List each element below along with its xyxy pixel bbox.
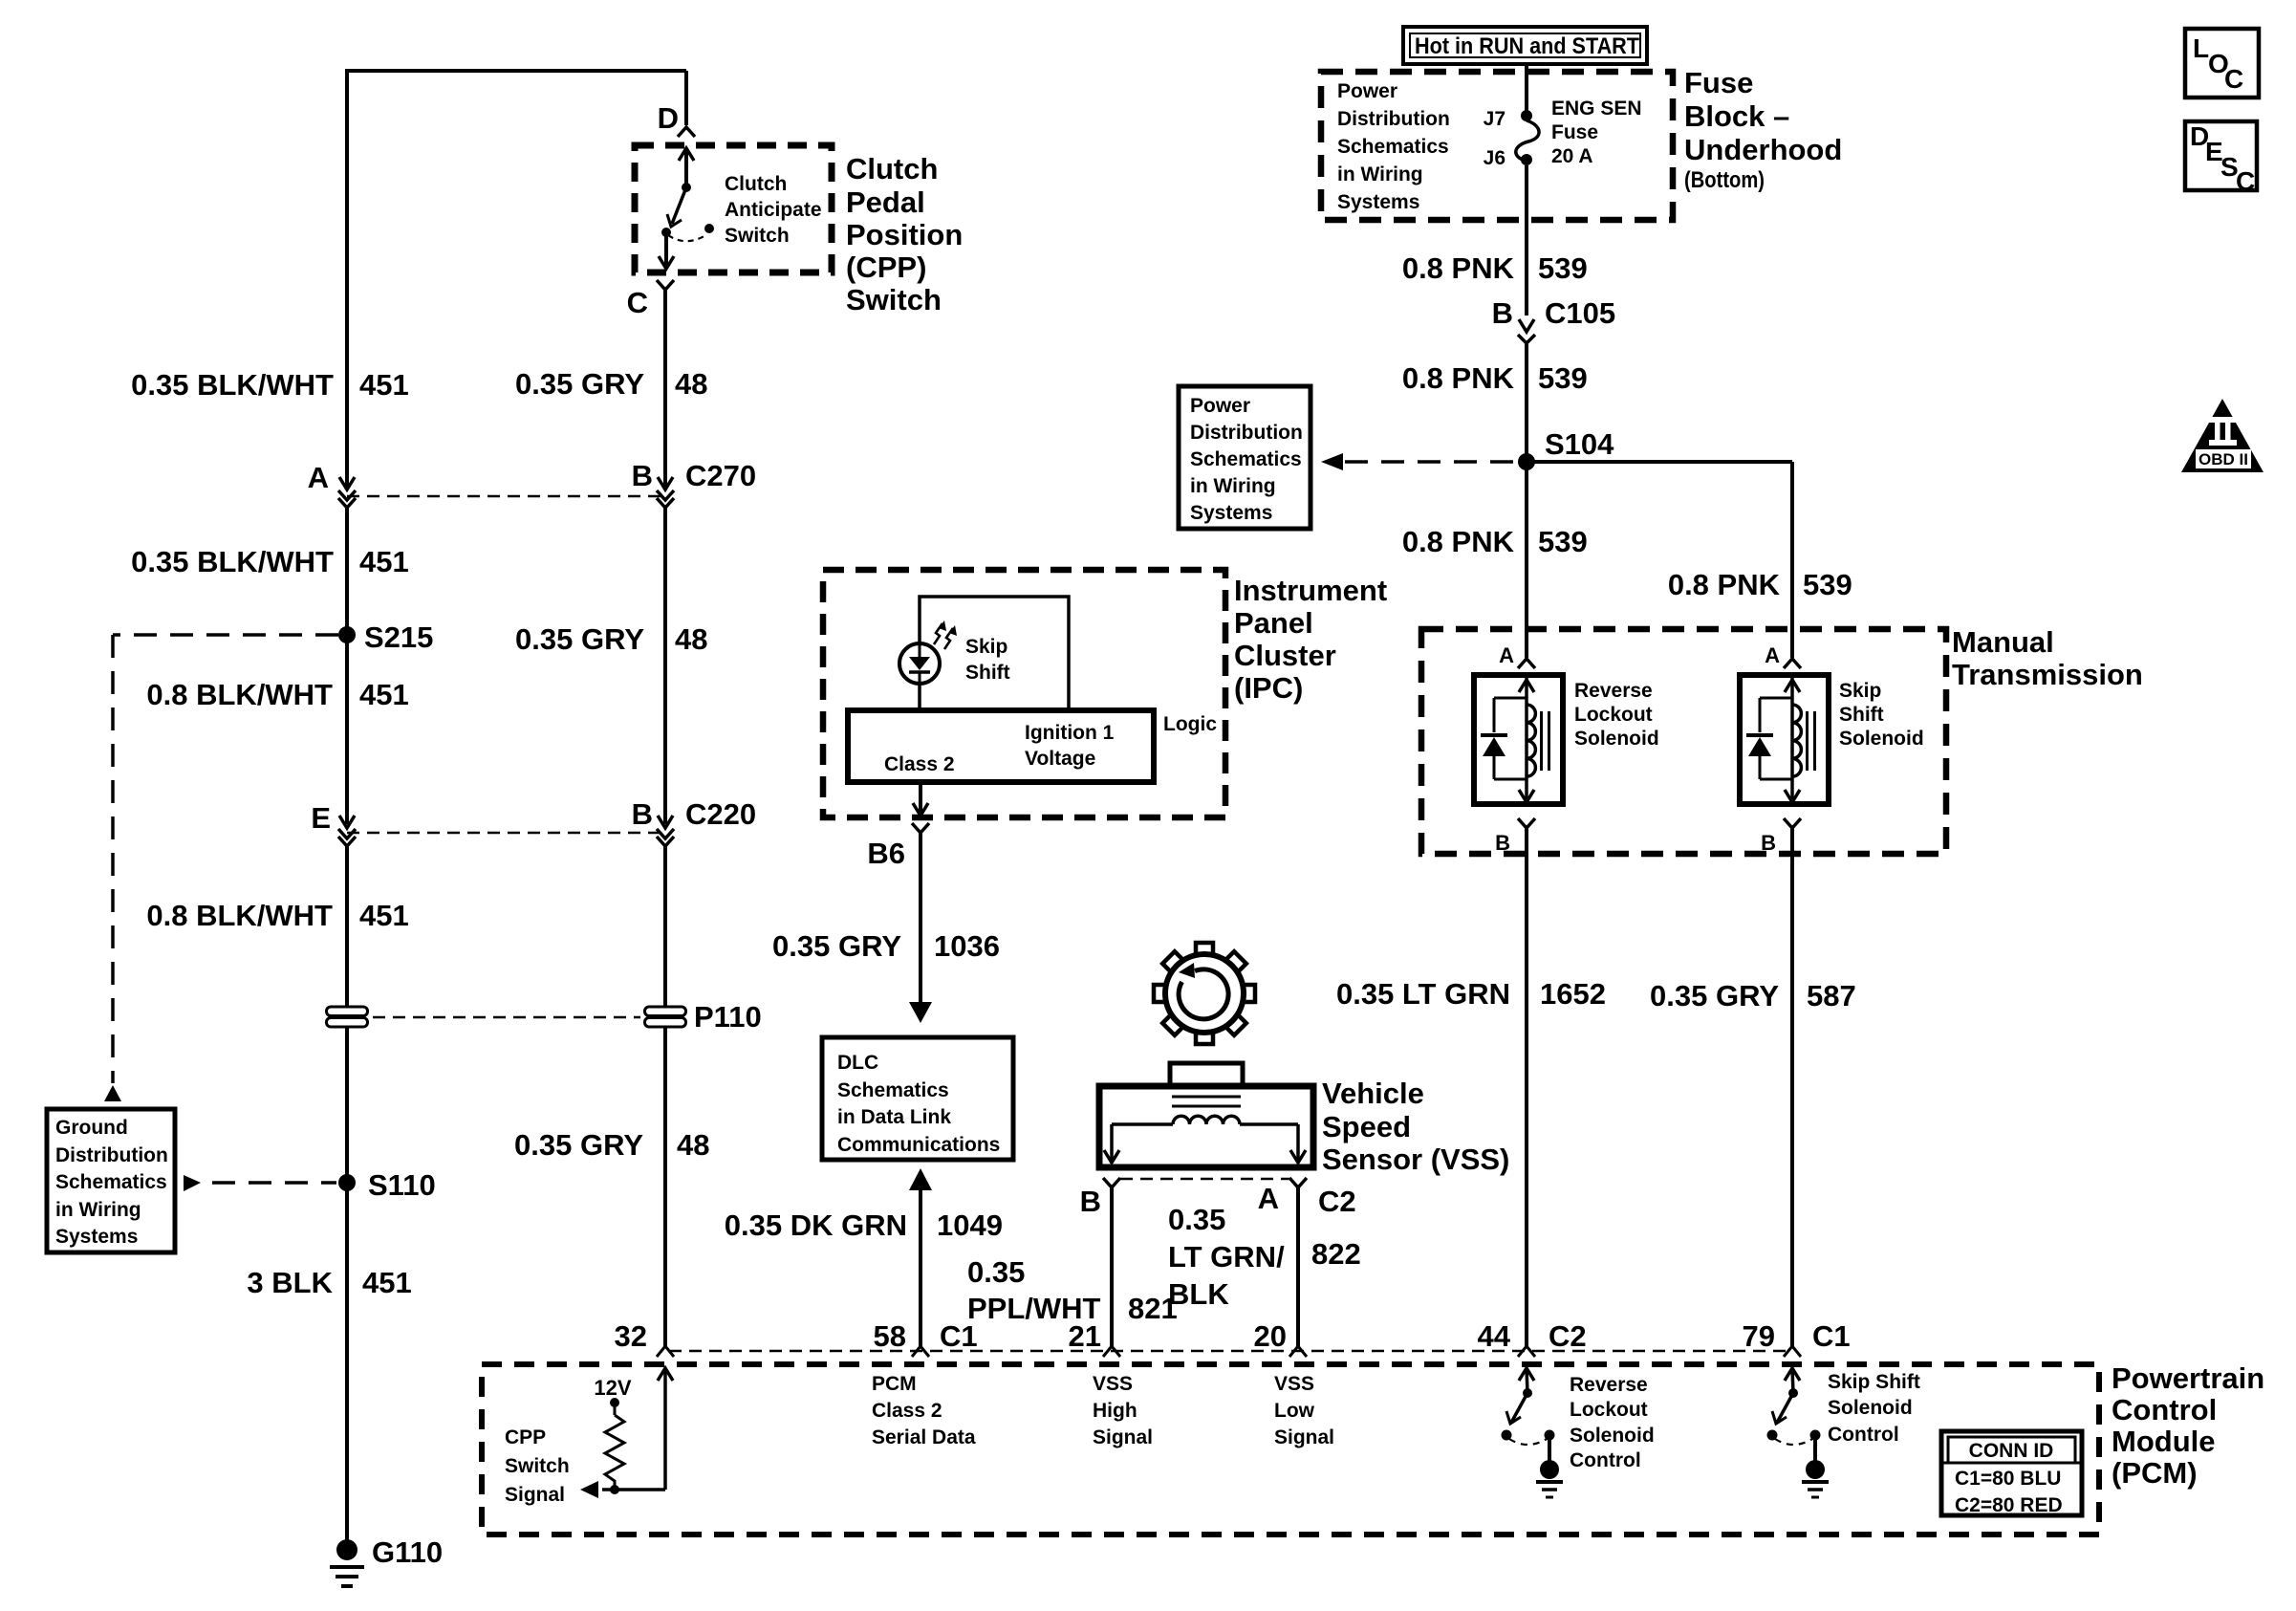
svg-text:451: 451: [359, 678, 409, 711]
thin dashed connector line PCM header: [669, 1350, 1788, 1353]
fuse terminal J6 dot: [1521, 154, 1532, 165]
svg-text:Hot in RUN and START: Hot in RUN and START: [1415, 33, 1639, 59]
svg-text:Shift: Shift: [965, 662, 1010, 684]
svg-text:48: 48: [677, 1128, 709, 1162]
svg-text:1049: 1049: [937, 1208, 1003, 1242]
svg-text:Skip: Skip: [965, 636, 1007, 658]
box Powertrain Control Module dashed: [482, 1364, 2099, 1535]
svg-text:Position: Position: [846, 218, 963, 251]
svg-text:C2: C2: [1549, 1319, 1587, 1353]
svg-text:Block –: Block –: [1684, 99, 1789, 133]
svg-text:0.8 BLK/WHT: 0.8 BLK/WHT: [146, 678, 333, 711]
svg-text:Control: Control: [2112, 1393, 2217, 1426]
svg-text:Switch: Switch: [846, 283, 942, 316]
connector P110 pass-through symbol right: [645, 1007, 686, 1016]
connector chevron B skip shift: [1784, 818, 1801, 828]
svg-text:A: A: [1499, 643, 1514, 667]
svg-text:Reverse: Reverse: [1574, 680, 1653, 702]
svg-text:0.35 BLK/WHT: 0.35 BLK/WHT: [131, 545, 334, 578]
svg-text:0.8 PNK: 0.8 PNK: [1402, 251, 1515, 285]
svg-text:Communications: Communications: [837, 1134, 1000, 1156]
svg-text:Shift: Shift: [1839, 704, 1884, 726]
connector pin 32 chevron: [657, 1346, 674, 1357]
node CPP switch upper contact dot: [682, 183, 691, 192]
svg-text:Voltage: Voltage: [1025, 748, 1095, 770]
thin dashed connector line C220: [347, 832, 665, 835]
svg-text:(Bottom): (Bottom): [1684, 167, 1765, 193]
svg-text:539: 539: [1538, 251, 1588, 285]
svg-text:C1: C1: [1812, 1319, 1851, 1353]
svg-text:C2=80 RED: C2=80 RED: [1955, 1494, 2063, 1516]
svg-text:539: 539: [1538, 525, 1588, 558]
svg-text:C105: C105: [1545, 296, 1615, 330]
svg-text:G110: G110: [372, 1535, 443, 1569]
svg-text:B: B: [1495, 831, 1510, 855]
box DLC Schematics in Data Link Communications: [822, 1037, 1013, 1160]
arrow right from ground distribution box: [184, 1175, 201, 1191]
svg-text:Skip: Skip: [1839, 680, 1881, 702]
svg-text:Distribution: Distribution: [55, 1144, 168, 1166]
svg-text:20 A: 20 A: [1551, 145, 1593, 167]
wire 0.35 LT GRN 1652 to PCM pin 44: [1525, 828, 1528, 1346]
svg-text:Sensor (VSS): Sensor (VSS): [1322, 1143, 1509, 1176]
svg-text:Ignition 1: Ignition 1: [1025, 722, 1115, 744]
wire S104 right branch: [1527, 460, 1792, 464]
svg-text:Instrument: Instrument: [1234, 574, 1387, 607]
VSS mounting boss rectangle: [1170, 1063, 1243, 1086]
svg-text:451: 451: [359, 899, 409, 932]
table CONN ID: [1941, 1431, 2082, 1515]
svg-text:Solenoid: Solenoid: [1839, 728, 1924, 750]
svg-text:Clutch: Clutch: [725, 173, 787, 195]
svg-text:0.8 BLK/WHT: 0.8 BLK/WHT: [146, 899, 333, 932]
svg-text:0.35 BLK/WHT: 0.35 BLK/WHT: [131, 368, 334, 402]
wire 0.35 DK GRN 1049 pin 58 to DLC: [919, 1188, 922, 1346]
svg-text:Transmission: Transmission: [1952, 658, 2143, 691]
switch driver reverse lockout solenoid control with ground: [1519, 1368, 1534, 1381]
svg-text:DLC: DLC: [837, 1052, 878, 1074]
connector chevron D: [678, 127, 695, 137]
svg-text:822: 822: [1311, 1237, 1361, 1271]
wire 0.35 PPL/WHT 821 VSS B to PCM pin 21: [1110, 1187, 1114, 1346]
svg-text:Logic: Logic: [1163, 713, 1217, 735]
fuse ENG SEN 20A terminal J7 dot: [1521, 110, 1532, 121]
wire IPC logic output with down arrow: [919, 782, 922, 816]
wire 0.8 PNK 539 C105 to S104: [1525, 344, 1528, 462]
svg-text:J7: J7: [1484, 108, 1505, 130]
svg-text:Schematics: Schematics: [1337, 136, 1449, 158]
arrow up from PCM pin 58 to DLC: [909, 1168, 932, 1190]
svg-text:451: 451: [359, 545, 409, 578]
svg-text:451: 451: [362, 1266, 412, 1299]
svg-text:Reverse: Reverse: [1570, 1374, 1648, 1396]
svg-text:Fuse: Fuse: [1551, 121, 1598, 143]
svg-text:12V: 12V: [594, 1376, 631, 1400]
svg-text:A: A: [1765, 643, 1780, 667]
svg-text:ENG SEN: ENG SEN: [1551, 98, 1642, 120]
svg-text:VSS: VSS: [1093, 1373, 1133, 1395]
node S104 junction dot: [1518, 453, 1535, 470]
connector pin 58 chevron: [912, 1346, 929, 1357]
svg-text:Systems: Systems: [1337, 191, 1419, 213]
svg-text:Serial Data: Serial Data: [872, 1426, 976, 1448]
connector P110 pass-through symbol left: [327, 1007, 368, 1016]
svg-text:in Wiring: in Wiring: [55, 1199, 141, 1221]
wire top horizontal from CPP switch D to BLK/WHT drop: [347, 69, 686, 73]
svg-text:Schematics: Schematics: [1190, 448, 1302, 470]
thin dashed connector line C270: [347, 495, 665, 498]
svg-text:Ground: Ground: [55, 1117, 128, 1139]
svg-text:Underhood: Underhood: [1684, 133, 1842, 166]
svg-text:Panel: Panel: [1234, 606, 1313, 640]
svg-text:PCM: PCM: [872, 1373, 917, 1395]
switch blade Clutch Anticipate Switch: [672, 187, 686, 224]
wire 0.8 PNK 539 fuse to C105: [1525, 165, 1528, 316]
svg-text:B: B: [1492, 296, 1513, 330]
connector C105 inline arrows: [1519, 319, 1534, 332]
wire 3 BLK P110 to S110 to G110: [345, 1027, 349, 1547]
svg-text:3 BLK: 3 BLK: [247, 1266, 333, 1299]
svg-text:Switch: Switch: [505, 1455, 570, 1477]
svg-text:0.35 GRY: 0.35 GRY: [772, 929, 901, 963]
svg-text:CONN ID: CONN ID: [1969, 1440, 2054, 1462]
thin dashed connector line P110: [373, 1016, 640, 1019]
symbol DESC box: [2185, 121, 2257, 190]
wire CPP switch signal inside PCM: [658, 1368, 673, 1381]
gear icon vehicle speed sensor rotor: [1241, 985, 1255, 1002]
VSS coil leads with arrows: [1112, 1122, 1173, 1126]
svg-text:in Data Link: in Data Link: [837, 1106, 951, 1128]
svg-text:1036: 1036: [934, 929, 1000, 963]
svg-text:0.35 GRY: 0.35 GRY: [514, 1128, 643, 1162]
svg-text:Solenoid: Solenoid: [1574, 728, 1659, 750]
fuse ENG SEN element S-curve: [1516, 120, 1539, 161]
IPC inner logic feed rectangle: [920, 597, 1069, 710]
box Instrument Panel Cluster dashed: [823, 570, 1225, 817]
LED light emission arrows: [934, 623, 942, 644]
svg-text:Pedal: Pedal: [846, 185, 925, 219]
svg-text:0.35 GRY: 0.35 GRY: [515, 622, 644, 656]
svg-text:Systems: Systems: [1190, 502, 1272, 524]
solenoid L1 Reverse Lockout Solenoid: [1518, 659, 1535, 668]
LED diode symbol: [919, 645, 921, 658]
wire 0.35 GRY 48 C220 to P110: [663, 844, 667, 1008]
svg-text:Module: Module: [2112, 1425, 2216, 1458]
svg-text:539: 539: [1538, 361, 1588, 395]
svg-text:1652: 1652: [1540, 977, 1606, 1011]
svg-text:E: E: [311, 801, 331, 835]
svg-text:58: 58: [874, 1319, 906, 1353]
connector pin 44 chevron: [1518, 1346, 1535, 1357]
svg-text:(IPC): (IPC): [1234, 671, 1303, 705]
svg-text:Low: Low: [1274, 1400, 1315, 1422]
svg-text:0.8 PNK: 0.8 PNK: [1402, 361, 1515, 395]
svg-text:CPP: CPP: [505, 1426, 546, 1448]
svg-text:Skip Shift: Skip Shift: [1828, 1371, 1920, 1393]
solenoid L2 Skip Shift Solenoid: [1784, 659, 1801, 668]
svg-text:Lockout: Lockout: [1574, 704, 1653, 726]
svg-text:in Wiring: in Wiring: [1190, 475, 1276, 497]
LED indicator Skip Shift circle: [899, 643, 940, 684]
svg-text:0.35 GRY: 0.35 GRY: [1650, 979, 1779, 1012]
svg-text:Cluster: Cluster: [1234, 639, 1336, 672]
svg-text:in Wiring: in Wiring: [1337, 163, 1423, 185]
wire 0.8 PNK 539 S104 down to solenoid A: [1525, 462, 1528, 658]
node S110 junction dot: [338, 1174, 356, 1191]
svg-text:48: 48: [675, 622, 707, 656]
box Ground Distribution Schematics in Wiring Systems: [47, 1109, 175, 1252]
svg-text:B: B: [632, 797, 653, 831]
svg-text:Signal: Signal: [1093, 1426, 1153, 1448]
connector row A / B C270 inline arrows: [339, 477, 355, 490]
svg-text:Power: Power: [1190, 395, 1250, 417]
svg-text:Power: Power: [1337, 80, 1397, 102]
svg-text:Schematics: Schematics: [837, 1079, 949, 1101]
svg-text:Distribution: Distribution: [1190, 422, 1303, 444]
node CPP switch fixed contact dot: [704, 224, 714, 233]
connector pin 20 chevron: [1289, 1346, 1307, 1357]
box Fuse Block Underhood dashed: [1321, 72, 1673, 220]
svg-text:C: C: [2236, 166, 2255, 196]
connector chevron C below CPP box: [657, 280, 674, 290]
connector pin 21 chevron: [1103, 1346, 1120, 1357]
svg-text:C2: C2: [1318, 1185, 1356, 1218]
wire 0.35 GRY 48 P110 to PCM pin 32: [663, 1027, 667, 1346]
svg-text:(CPP): (CPP): [846, 250, 926, 284]
wire 0.8 BLK/WHT E to P110: [345, 844, 349, 1008]
svg-text:BLK: BLK: [1168, 1277, 1229, 1311]
dashed reference wire to S110: [212, 1181, 336, 1185]
svg-text:Solenoid: Solenoid: [1828, 1397, 1913, 1419]
svg-text:0.8 PNK: 0.8 PNK: [1668, 568, 1781, 601]
svg-text:Clutch: Clutch: [846, 152, 938, 185]
wire D drop from top horizontal: [684, 71, 688, 125]
arrow up at ground distribution reference: [104, 1085, 121, 1101]
svg-text:48: 48: [675, 367, 707, 401]
svg-text:Distribution: Distribution: [1337, 108, 1450, 130]
svg-text:C: C: [2224, 64, 2243, 94]
wire CPP internal lower with down arrow: [664, 232, 668, 269]
svg-text:Powertrain: Powertrain: [2112, 1361, 2264, 1395]
connector chevron VSS B: [1103, 1178, 1120, 1187]
box Power Distribution Schematics in Wiring Systems: [1179, 386, 1310, 529]
svg-text:C: C: [627, 286, 648, 319]
wire 0.35 GRY 587 to PCM pin 79: [1790, 828, 1794, 1346]
arrow into DLC box: [909, 1002, 932, 1023]
svg-text:(PCM): (PCM): [2112, 1456, 2198, 1490]
svg-text:Control: Control: [1828, 1424, 1899, 1446]
arrow CPP switch signal: [580, 1481, 598, 1498]
svg-text:C1: C1: [940, 1319, 978, 1353]
svg-text:S215: S215: [364, 620, 433, 654]
box Vehicle Speed Sensor body: [1099, 1086, 1313, 1167]
svg-text:Fuse: Fuse: [1684, 66, 1753, 99]
svg-text:S110: S110: [368, 1168, 436, 1202]
svg-text:OBD II: OBD II: [2199, 450, 2248, 468]
box Hot in RUN and START: [1403, 27, 1647, 64]
svg-text:Anticipate: Anticipate: [725, 199, 822, 221]
svg-text:Manual: Manual: [1952, 625, 2054, 659]
svg-text:0.35 LT GRN: 0.35 LT GRN: [1336, 977, 1510, 1011]
svg-text:B6: B6: [867, 837, 905, 870]
wire 0.35 GRY 1036 B6 to DLC: [919, 833, 922, 1002]
svg-text:0.35: 0.35: [1168, 1203, 1225, 1236]
connector chevron B reverse lockout: [1518, 818, 1535, 828]
svg-text:High: High: [1093, 1400, 1137, 1422]
svg-text:Lockout: Lockout: [1570, 1399, 1648, 1421]
arrow left to power distribution reference: [1321, 453, 1343, 470]
wire hot feed into fuse: [1525, 64, 1528, 113]
node CPP switch pivot dot: [661, 228, 671, 237]
VSS core lines: [1172, 1096, 1241, 1099]
svg-text:44: 44: [1478, 1319, 1511, 1353]
svg-text:C270: C270: [685, 459, 756, 492]
svg-text:LT GRN/: LT GRN/: [1168, 1240, 1285, 1274]
svg-text:539: 539: [1803, 568, 1852, 601]
svg-text:20: 20: [1254, 1319, 1287, 1353]
svg-text:C1=80 BLU: C1=80 BLU: [1955, 1468, 2061, 1490]
svg-text:Class 2: Class 2: [884, 753, 955, 775]
svg-text:A: A: [1258, 1182, 1279, 1215]
wire 0.35 LT GRN/BLK 822 VSS A to PCM pin 20: [1296, 1187, 1300, 1346]
svg-text:Class 2: Class 2: [872, 1400, 942, 1422]
dashed reference wire S215 to Ground Distribution Schematics: [113, 633, 338, 637]
wire 0.35 GRY 48 C to C270 row: [663, 290, 667, 488]
ground G110 symbol: [336, 1539, 357, 1560]
svg-text:0.35: 0.35: [967, 1255, 1025, 1289]
thin dashed connector line C2 at VSS: [1120, 1178, 1289, 1181]
wire 0.8 BLK/WHT S215 to E: [345, 635, 349, 824]
symbol LOC box: [2185, 29, 2259, 98]
svg-text:0.8 PNK: 0.8 PNK: [1402, 525, 1515, 558]
svg-text:79: 79: [1743, 1319, 1775, 1353]
svg-text:21: 21: [1069, 1319, 1101, 1353]
connector chevron VSS A: [1289, 1178, 1307, 1187]
svg-text:L: L: [2193, 33, 2209, 63]
svg-text:0.35 DK GRN: 0.35 DK GRN: [725, 1208, 907, 1242]
dashed reference wire S104 to Power Distribution box: [1345, 460, 1520, 464]
svg-text:B: B: [1761, 831, 1776, 855]
svg-text:Speed: Speed: [1322, 1110, 1411, 1143]
svg-text:VSS: VSS: [1274, 1373, 1314, 1395]
box Manual Transmission dashed: [1421, 629, 1946, 854]
switch driver skip shift solenoid control with ground: [1785, 1368, 1800, 1381]
svg-text:Solenoid: Solenoid: [1570, 1425, 1655, 1447]
svg-text:J6: J6: [1484, 147, 1505, 169]
svg-text:Systems: Systems: [55, 1226, 138, 1248]
svg-text:Signal: Signal: [1274, 1426, 1334, 1448]
svg-text:Switch: Switch: [725, 225, 790, 247]
VSS coil winding: [1173, 1116, 1240, 1124]
svg-text:A: A: [308, 461, 329, 494]
symbol OBD II triangle: [2181, 399, 2264, 472]
box Logic inside IPC: [848, 710, 1154, 782]
svg-text:C220: C220: [685, 797, 756, 831]
svg-text:Control: Control: [1570, 1449, 1641, 1471]
wire CPP internal upper with up arrow: [684, 149, 688, 187]
wire 0.35 GRY 48 C270 to C220: [663, 506, 667, 824]
svg-text:D: D: [658, 101, 679, 135]
wire 0.35 BLK/WHT 451 segment A to S215: [345, 506, 349, 635]
svg-text:Signal: Signal: [505, 1484, 565, 1506]
resistor pull-up 12V: [610, 1398, 619, 1407]
svg-text:P110: P110: [694, 1000, 762, 1034]
svg-text:0.35 GRY: 0.35 GRY: [515, 367, 644, 401]
svg-text:Schematics: Schematics: [55, 1171, 167, 1193]
connector pin 79 chevron: [1784, 1346, 1801, 1357]
svg-text:32: 32: [615, 1319, 647, 1353]
box Clutch Pedal Position CPP Switch dashed: [635, 145, 832, 272]
svg-text:Vehicle: Vehicle: [1322, 1077, 1424, 1110]
svg-text:S104: S104: [1545, 427, 1614, 461]
node S215 junction dot: [338, 626, 356, 643]
connector chevron B6: [912, 823, 929, 833]
svg-text:451: 451: [359, 368, 409, 402]
svg-text:587: 587: [1807, 979, 1856, 1012]
connector row E / B C220 inline arrows: [339, 816, 355, 828]
svg-text:B: B: [632, 459, 653, 492]
dashed arc clutch anticipate switch throw: [668, 234, 707, 241]
svg-text:B: B: [1080, 1185, 1101, 1218]
